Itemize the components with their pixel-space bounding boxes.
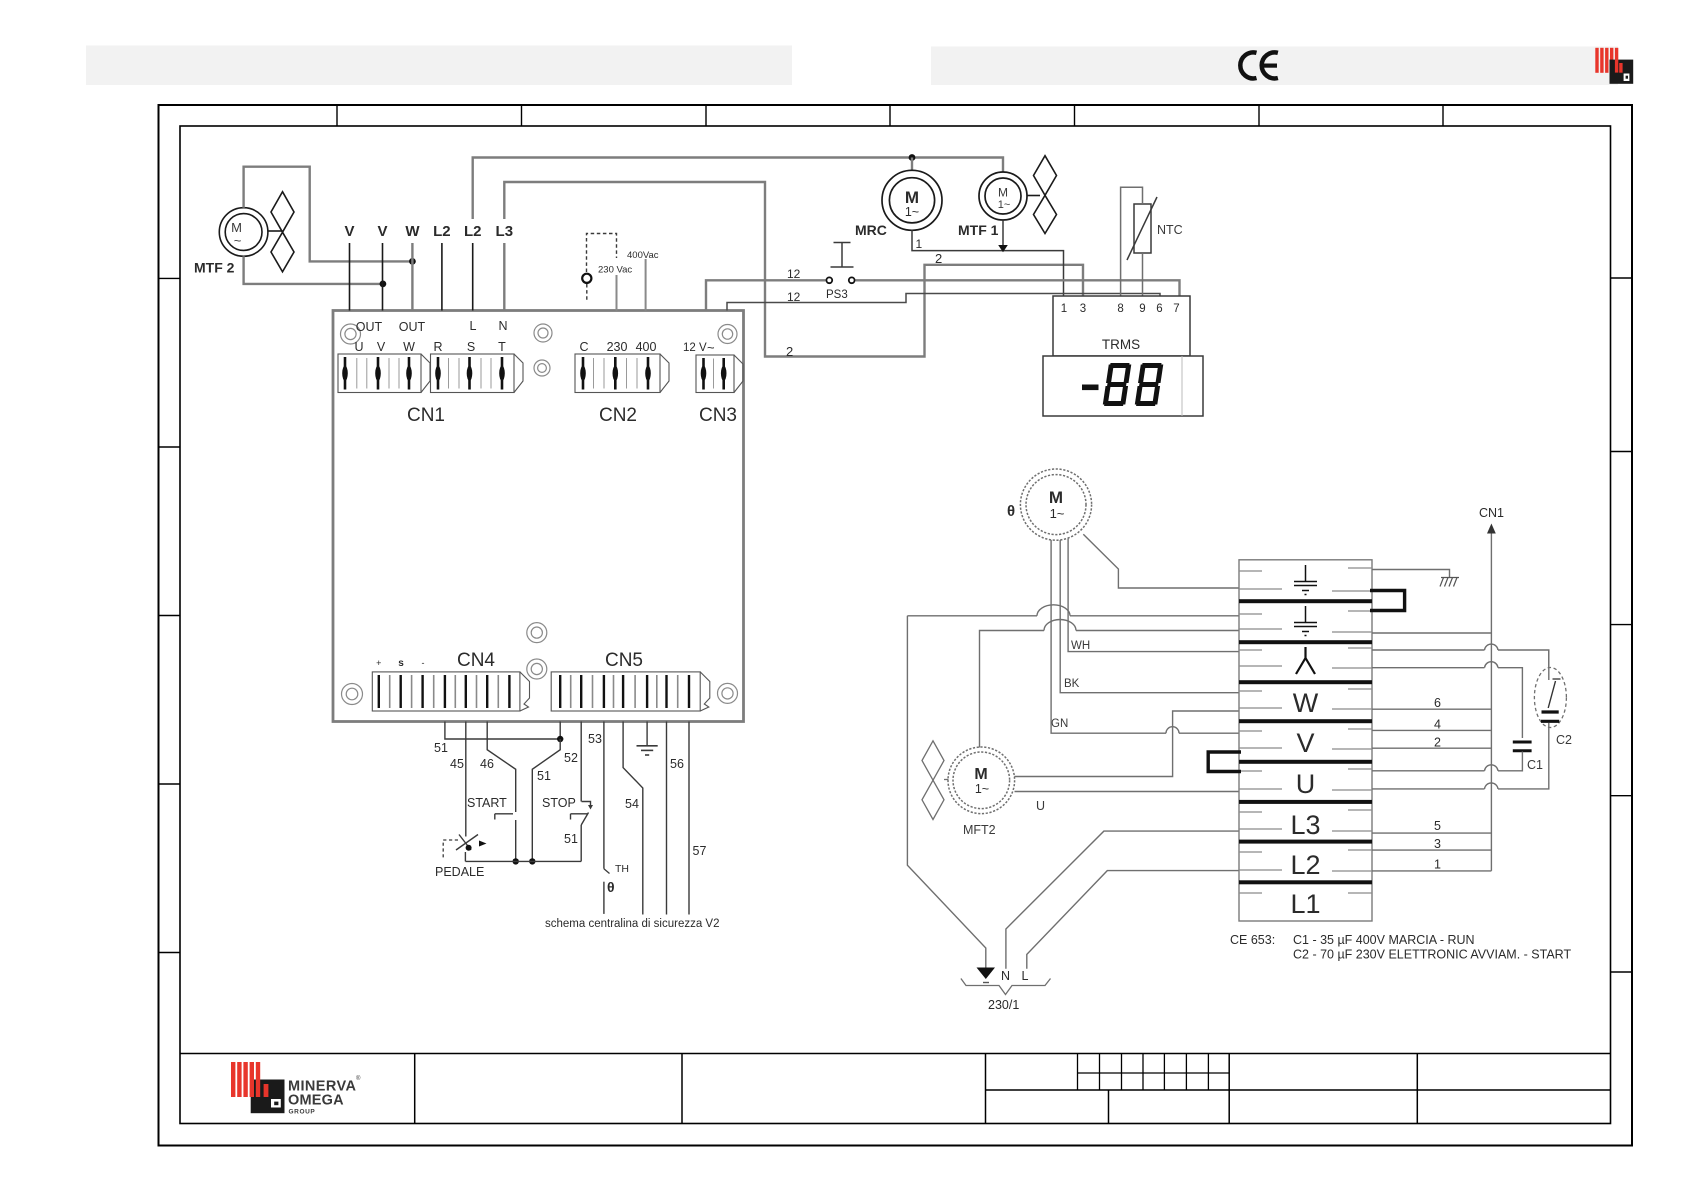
capacitor C1: [1513, 742, 1532, 751]
svg-text:START: START: [467, 796, 507, 810]
svg-text:~: ~: [707, 340, 715, 355]
svg-text:12: 12: [787, 290, 801, 304]
brace under plug: [961, 979, 1051, 995]
terminal strip: [1239, 560, 1372, 921]
svg-text:57: 57: [693, 844, 707, 858]
motor MRC: [882, 170, 942, 230]
motor MFT2: [948, 747, 1015, 814]
C1 return to U row: [1372, 752, 1522, 771]
svg-text:2: 2: [786, 344, 793, 359]
wire NTC top loop to TRMS pin8: [1121, 187, 1143, 296]
wire 51 CN4 to CN5: [445, 722, 560, 740]
wire 1 L2 row to trunk: [1372, 870, 1491, 872]
strip separator bars: [1239, 599, 1372, 884]
svg-text:4: 4: [1434, 718, 1441, 732]
svg-text:schema centralina di sicurezza: schema centralina di sicurezza V2: [545, 918, 720, 930]
plug L wire from L2 row: [1027, 871, 1239, 969]
junction on W column: [409, 258, 416, 265]
svg-text:CN3: CN3: [699, 405, 737, 426]
svg-text:M: M: [998, 186, 1008, 200]
svg-text:WH: WH: [1071, 640, 1090, 652]
svg-text:GROUP: GROUP: [289, 1109, 316, 1116]
svg-text:L: L: [470, 319, 477, 333]
svg-text:W: W: [403, 340, 415, 354]
svg-text:TRMS: TRMS: [1102, 337, 1140, 352]
wire MRC top lead: [911, 158, 913, 171]
connector CN5: [551, 672, 700, 711]
wire L3 to node 2: [504, 182, 1083, 357]
svg-text:TH: TH: [615, 863, 629, 875]
voltage selector 230/400 dashed link: [587, 234, 617, 303]
wire 6 W row to trunk: [1372, 708, 1491, 710]
title block revision grid: [1078, 1054, 1230, 1091]
MFT2 top lead to row N: [980, 631, 1240, 748]
svg-text:-: -: [422, 658, 425, 668]
wire 3 L2 row to trunk: [1372, 849, 1491, 851]
column wire L2a: [441, 243, 443, 311]
column wire L3: [503, 243, 505, 311]
junction 51 bottom: [529, 858, 535, 864]
jumper link right (gnd rows): [1370, 591, 1405, 611]
wire MTF2 top to W column: [244, 167, 413, 262]
svg-text:T: T: [498, 340, 506, 354]
svg-text:C1: C1: [1527, 758, 1543, 772]
wire 53 with thermal contact: [603, 722, 605, 869]
svg-text:OUT: OUT: [356, 320, 383, 334]
svg-text:L3: L3: [1290, 810, 1320, 840]
junction on V column: [380, 281, 387, 288]
grey header banner right: [931, 47, 1618, 86]
svg-text:CN5: CN5: [605, 650, 643, 671]
fan of MFT2: [922, 741, 949, 820]
wire 4 V row to trunk: [1372, 729, 1491, 731]
ground from CN5: [646, 722, 648, 746]
svg-text:C1 - 35 µF 400V MARCIA - RUN: C1 - 35 µF 400V MARCIA - RUN: [1293, 933, 1475, 947]
frame zone ticks top: [337, 105, 1443, 126]
wire 56: [666, 722, 668, 915]
svg-text:54: 54: [625, 797, 639, 811]
svg-text:230: 230: [607, 340, 628, 354]
outer drawing frame: [159, 105, 1633, 1146]
connector CN2: [575, 354, 660, 393]
svg-text:MTF 2: MTF 2: [194, 260, 235, 276]
svg-text:U: U: [1296, 769, 1316, 799]
wire BK: [1060, 540, 1239, 693]
earth wire from plug to row N: [907, 615, 1239, 617]
title block: [180, 1054, 1611, 1124]
svg-text:CN2: CN2: [599, 405, 637, 426]
svg-text:52: 52: [564, 751, 578, 765]
display digit 8 (first): [1103, 363, 1132, 406]
svg-text:9: 9: [1139, 303, 1145, 315]
wire lambda to C1: [1372, 668, 1522, 738]
svg-text:CN4: CN4: [457, 650, 495, 671]
connector CN4: [372, 672, 520, 711]
wire lambda to C2 switch: [1372, 650, 1549, 668]
svg-text:V: V: [344, 223, 354, 240]
jumper link left (V-U rows): [1208, 752, 1241, 772]
minerva mini logo top right: [1595, 48, 1633, 84]
column wire L2b: [472, 243, 474, 311]
svg-text:6: 6: [1434, 696, 1441, 710]
svg-text:8: 8: [1117, 303, 1123, 315]
fan of MTF1: [1027, 156, 1057, 234]
svg-text:MRC: MRC: [855, 222, 887, 238]
svg-text:S: S: [467, 340, 475, 354]
motor theta (blade motor): [1020, 469, 1091, 540]
bottom rail wire: [465, 860, 581, 862]
wire 52 to STOP: [580, 722, 582, 802]
svg-text:N: N: [498, 319, 507, 333]
wire 45 to pedal: [465, 722, 467, 837]
CN1 harness trunk: [1490, 530, 1492, 871]
svg-text:L2: L2: [1290, 850, 1320, 880]
svg-text:V: V: [1296, 728, 1314, 758]
svg-text:L2: L2: [433, 223, 451, 240]
junction node 51: [557, 736, 563, 742]
wire 12 lower to TRMS pin6: [727, 294, 1160, 311]
chassis earth symbol: [1440, 578, 1459, 587]
ground symbol row 1: [1294, 565, 1317, 595]
svg-text:230 Vac: 230 Vac: [598, 265, 632, 276]
wire MTF2 bottom to V column: [244, 256, 383, 284]
svg-text:1~: 1~: [975, 782, 989, 796]
grey header banner left: [86, 46, 792, 86]
svg-text:BK: BK: [1064, 678, 1080, 690]
svg-text:51: 51: [434, 741, 448, 755]
svg-text:W: W: [1293, 688, 1319, 718]
svg-text:OUT: OUT: [399, 320, 426, 334]
wire 54: [623, 722, 643, 915]
svg-text:N: N: [1001, 969, 1010, 983]
wire 12 through PS3 to TRMS pin7: [706, 280, 826, 310]
thermistor NTC: [1134, 204, 1151, 253]
plug N wire from L3 row: [1006, 831, 1239, 969]
svg-text:51: 51: [537, 769, 551, 783]
svg-text:1~: 1~: [998, 199, 1011, 211]
wire WH: [1068, 539, 1239, 652]
wire 51 branch to bottom rail: [532, 739, 560, 861]
wire 2 V row to trunk: [1372, 747, 1491, 749]
motor MTF1: [979, 172, 1027, 220]
svg-text:12 V: 12 V: [683, 342, 707, 354]
theta motor leads: [1051, 534, 1239, 733]
GN crossing hop: [1166, 727, 1179, 734]
connector CN1 block B (R S T): [431, 354, 515, 393]
minerva omega group logo: [231, 1062, 361, 1116]
inner drawing frame: [180, 126, 1611, 1124]
wire 1 MRC to TRMS pin1: [912, 230, 1064, 296]
svg-text:θ: θ: [1007, 503, 1015, 520]
svg-text:C: C: [579, 340, 588, 354]
svg-text:3: 3: [1434, 837, 1441, 851]
svg-text:MTF 1: MTF 1: [958, 222, 999, 238]
svg-text:3: 3: [1080, 303, 1086, 315]
CE mark: [1240, 52, 1278, 78]
wire 57: [688, 722, 690, 915]
svg-text:+: +: [376, 658, 381, 668]
column wire V1: [349, 243, 351, 311]
C2 return to U row: [1372, 723, 1549, 789]
svg-text:45: 45: [450, 757, 464, 771]
svg-text:®: ®: [356, 1075, 361, 1082]
svg-text:56: 56: [670, 757, 684, 771]
svg-text:W: W: [405, 223, 420, 240]
svg-text:C2 - 70 µF 230V ELETTRONIC AVV: C2 - 70 µF 230V ELETTRONIC AVVIAM. - STA…: [1293, 948, 1571, 962]
junction at MRC top: [909, 154, 916, 161]
selector stub 400: [645, 259, 647, 311]
svg-text:M: M: [1049, 488, 1063, 507]
svg-text:θ: θ: [607, 879, 615, 895]
pushbutton PS3: [831, 243, 854, 268]
svg-text:CE 653:: CE 653:: [1230, 933, 1275, 947]
chassis earth wire row1 right: [1372, 570, 1450, 578]
svg-text:5: 5: [1434, 819, 1441, 833]
theta motor earth lead: [1083, 534, 1239, 588]
svg-text:1~: 1~: [905, 205, 919, 219]
svg-text:6: 6: [1156, 303, 1162, 315]
svg-text:s: s: [398, 658, 404, 669]
MFT2 U lead: [1015, 791, 1240, 793]
frame zone ticks left: [159, 278, 181, 952]
wire NTC bottom to TRMS pin9: [1142, 253, 1144, 296]
svg-text:1: 1: [1434, 858, 1441, 872]
hop over theta leads (MFT2 wire): [1044, 620, 1076, 631]
svg-text:2: 2: [1434, 736, 1441, 750]
display minus sign: [1082, 385, 1099, 391]
column wire V2: [382, 243, 384, 311]
svg-text:53: 53: [588, 732, 602, 746]
TRMS display window: [1043, 356, 1203, 416]
svg-text:L1: L1: [1290, 889, 1320, 919]
strip clamp dashes: [1239, 568, 1372, 893]
svg-text:1: 1: [916, 237, 923, 251]
svg-text:1~: 1~: [1050, 506, 1065, 521]
motor MTF2: [219, 208, 268, 257]
STOP switch contact: [571, 802, 591, 862]
svg-text:CN1: CN1: [407, 405, 445, 426]
svg-text:MFT2: MFT2: [963, 823, 996, 837]
svg-text:R: R: [433, 340, 442, 354]
svg-text:1: 1: [1061, 303, 1067, 315]
svg-text:C2: C2: [1556, 733, 1572, 747]
START switch contact: [495, 814, 516, 862]
selector terminal circle: [582, 274, 591, 283]
connector CN1 block A (U V W): [338, 354, 421, 393]
earth arrow at plug: [977, 968, 996, 980]
svg-text:12: 12: [787, 267, 801, 281]
connector CN3: [696, 355, 734, 393]
svg-text:V: V: [377, 223, 387, 240]
svg-text:7: 7: [1173, 303, 1179, 315]
svg-text:L2: L2: [464, 223, 482, 240]
svg-text:U: U: [354, 340, 363, 354]
junction START bottom: [513, 858, 519, 864]
lambda symbol row 3: [1296, 647, 1315, 674]
junction arrow MTF1 on wire 1: [998, 245, 1008, 252]
svg-text:L: L: [1022, 969, 1029, 983]
svg-text:NTC: NTC: [1157, 223, 1183, 237]
wire 46 to START: [487, 722, 516, 813]
svg-text:PS3: PS3: [826, 289, 848, 301]
pedal switch PEDALE: [456, 835, 478, 862]
frame zone ticks right: [1611, 278, 1633, 972]
svg-text:2: 2: [935, 251, 942, 266]
display digit 8 (second): [1135, 363, 1164, 406]
fan of MTF2: [268, 192, 294, 272]
wire GN: [1051, 540, 1239, 733]
svg-text:PEDALE: PEDALE: [435, 865, 484, 879]
svg-text:~: ~: [234, 233, 242, 248]
svg-text:STOP: STOP: [542, 796, 576, 810]
selector stub 230: [616, 275, 618, 311]
svg-text:230/1: 230/1: [988, 998, 1019, 1012]
svg-text:CN1: CN1: [1479, 506, 1504, 520]
column wire W: [411, 243, 413, 311]
MFT2 right lead to W row: [1014, 711, 1239, 777]
svg-text:L3: L3: [496, 223, 514, 240]
wire L2 feed to MRC/MTF1: [473, 158, 1003, 220]
svg-text:U: U: [1036, 799, 1045, 813]
TRMS module: [1053, 296, 1190, 356]
screw holes: [341, 324, 738, 705]
capacitor C2 with centrifugal switch: [1534, 668, 1566, 728]
ground symbol row 2: [1294, 606, 1317, 636]
svg-text:OMEGA: OMEGA: [288, 1093, 344, 1109]
wire 5 L3 row to trunk: [1372, 832, 1491, 834]
svg-text:51: 51: [564, 832, 578, 846]
control box U1: [333, 311, 744, 722]
svg-text:400Vac: 400Vac: [627, 250, 659, 261]
svg-text:V: V: [377, 340, 386, 354]
svg-text:M: M: [974, 766, 987, 783]
svg-text:46: 46: [480, 757, 494, 771]
svg-text:400: 400: [636, 340, 657, 354]
wire row2 to trunk: [1372, 632, 1491, 634]
svg-text:GN: GN: [1051, 718, 1068, 730]
wire MTF1 bottom lead: [1002, 220, 1004, 247]
